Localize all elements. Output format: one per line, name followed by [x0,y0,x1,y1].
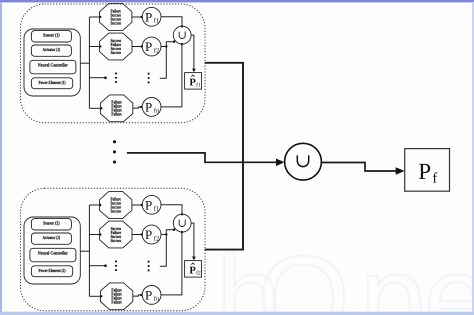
wire to state octagon 1b [89,45,101,47]
wire Pf2 to union node 1 [161,41,175,48]
probability circle Pfn (subsystem 1) [142,98,161,117]
svg-text:Neural Controller: Neural Controller [38,62,68,68]
svg-text:Sensor (2): Sensor (2) [43,221,60,227]
probability circle Pf2 (subsystem 2) [142,225,161,244]
box Actuator (1) of subsystem 1 [31,45,71,56]
svg-text:f2: f2 [154,47,160,54]
subsystem 1 dashed container [21,4,206,123]
estimate box Phat_f2 [185,261,202,278]
svg-text:f1: f1 [196,83,201,89]
box Power Element (1) of subsystem 1 [31,78,72,89]
svg-text:f2: f2 [154,235,160,242]
continuation stub near Pf dots 2 [160,235,167,267]
wire to state octagon 1c [89,107,102,109]
wire octagon 2b to Pf2 [132,233,143,235]
svg-text:P: P [145,197,152,212]
branch trunk 2 [88,205,90,296]
box Neural Controller of subsystem 1 [30,60,76,74]
union node of subsystem 2 [173,214,191,232]
wire to state octagon 1a [89,16,101,18]
ellipsis dots between octagons 2 [115,260,117,271]
subsystem 2 dashed container [21,188,206,310]
svg-text:Success: Success [111,20,122,25]
wire to state octagon 2c [89,295,102,297]
branch trunk 1 [88,17,90,108]
probability circle Pfn (subsystem 2) [142,286,161,305]
ellipsis dots between octagons 1 [115,72,117,83]
state octagon 2b [100,221,132,248]
wire to state octagon 2a [89,204,101,206]
svg-text:Failure: Failure [111,300,121,305]
box Sensor (1) of subsystem 1 [31,31,71,42]
state octagon 2a [100,192,132,219]
probability circle Pf1 (subsystem 1) [142,7,161,26]
wire octagon 2c to Pfn [133,294,143,296]
main union node [285,143,322,180]
svg-text:P: P [145,39,152,54]
state octagon 2c [100,283,132,310]
svg-text:Success: Success [111,208,122,213]
wire Pfn to union node 2 [161,231,183,295]
wire union node to estimate box 1 [191,35,196,72]
wire Pfn to union node 1 [161,43,183,107]
output box Pf [405,149,450,192]
probability circle Pf2 (subsystem 1) [142,37,161,56]
continuation stub near Pf dots 1 [160,47,167,79]
union node of subsystem 1 [173,26,191,44]
wire panel-1 to branch trunk [80,62,89,64]
svg-text:Failure: Failure [111,112,121,117]
svg-text:Actuator (1): Actuator (1) [43,47,61,53]
svg-text:f: f [432,170,437,186]
wire Pf1 to union node 2 [161,205,183,216]
continuation stub wire 1 [89,76,106,79]
component panel 2 [24,217,80,284]
ellipsis dots between subsystems [113,140,116,163]
svg-text:P: P [145,227,152,242]
svg-text:f1: f1 [154,18,160,25]
wire union node to estimate box 2 [191,223,196,260]
box Power Element (2) of subsystem 2 [31,266,72,277]
wire Pf2 to union node 2 [161,229,175,236]
state octagon 1c [100,95,132,122]
continuation stub wire 2 [89,264,106,267]
svg-text:fn: fn [154,108,160,115]
svg-text:Power Element (1): Power Element (1) [39,80,66,86]
wire octagon 1b to Pf2 [132,45,143,47]
wire octagon 2a to Pf1 [132,204,143,206]
svg-text:f2: f2 [196,271,201,277]
svg-text:Sensor (1): Sensor (1) [43,33,60,39]
svg-text:P: P [145,100,152,115]
wire main union to output box Pf [321,163,404,175]
svg-text:Power Element (2): Power Element (2) [39,268,66,274]
wire panel-2 to branch trunk [80,250,89,252]
svg-text:Success: Success [111,50,122,55]
svg-text:Actuator (2): Actuator (2) [43,235,61,241]
svg-text:hOpe: hOpe [216,232,474,315]
probability circle Pf1 (subsystem 2) [142,195,161,214]
ellipsis dots between probability circles 1 [148,73,150,84]
estimate box Phat_f1 [185,73,202,90]
state octagon 1a [100,4,132,31]
svg-text:Neural Controller: Neural Controller [38,250,68,256]
svg-text:f1: f1 [154,206,160,213]
box Neural Controller of subsystem 2 [30,248,76,261]
box Actuator (2) of subsystem 2 [31,233,71,244]
wire octagon 1a to Pf1 [132,16,143,18]
subsystem output bus wire [205,63,243,250]
svg-text:P: P [145,9,152,24]
component panel 1 [24,29,80,96]
svg-text:P: P [145,288,152,303]
ellipsis dots between probability circles 2 [148,261,150,272]
svg-text:P: P [418,159,431,185]
svg-text:fn: fn [154,296,160,303]
box Sensor (2) of subsystem 2 [31,219,71,230]
svg-text:Success: Success [111,238,122,243]
wire octagon 1c to Pfn [133,106,143,108]
wire to state octagon 2b [89,233,101,235]
state octagon 1b [100,33,132,60]
wire from further subsystems to main union node [127,153,284,166]
wire Pf1 to union node 1 [161,17,183,28]
